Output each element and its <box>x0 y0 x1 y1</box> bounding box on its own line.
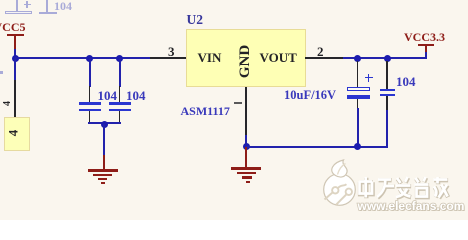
wire caps to ground <box>103 124 105 156</box>
capacitor C2 104 <box>108 86 132 123</box>
pin 3 (VIN) <box>150 57 186 59</box>
pin number 4 (rotated) <box>2 101 13 106</box>
node junction C3 bottom <box>354 143 361 150</box>
node junction C1 top <box>86 55 93 62</box>
connector pin name 4 (rotated) <box>5 130 21 137</box>
label C4 value 104 <box>396 74 416 90</box>
node A junction <box>12 55 19 62</box>
pin 2 (VOUT) <box>305 57 344 59</box>
clipped capacitor (top partial, 104) <box>0 0 90 16</box>
ground GND1 <box>85 150 121 186</box>
power flag VCC5 <box>0 20 40 52</box>
node junction GND <box>243 143 250 150</box>
capacitor C1 104 <box>78 86 102 123</box>
wire VCC5 to node A <box>14 49 16 58</box>
regulator U2 body (ASM1117) <box>186 29 306 87</box>
pin name GND (rotated) <box>237 45 254 78</box>
clipped wire stub (left edge) <box>0 71 3 74</box>
power flag VCC3.3 <box>400 30 460 60</box>
pin name VOUT <box>260 50 297 66</box>
label C1 value 104 <box>98 88 118 104</box>
watermark url text <box>358 199 465 213</box>
pin name VIN <box>198 50 222 66</box>
clipped capacitor (top-left partial, polarized) <box>0 0 80 15</box>
watermark logo (elecfans) <box>318 158 364 216</box>
capacitor C3 10uF/16V (polarized) <box>345 58 375 113</box>
wire output rail <box>343 57 427 59</box>
node junction C3 top <box>354 55 361 62</box>
watermark text CJK (elecfans) <box>357 175 452 202</box>
part value ASM1117 <box>181 104 230 119</box>
pin GND of U2 <box>245 87 247 136</box>
wire C2 drop <box>119 58 121 87</box>
node junction C4 top <box>384 55 391 62</box>
capacitor C4 104 <box>378 58 398 110</box>
label C2 value 104 <box>126 88 146 104</box>
wire C3 bottom drop <box>357 108 359 147</box>
ground GND2 <box>228 147 264 183</box>
node junction caps bottom <box>101 121 108 128</box>
wire VCC3.3 drop <box>425 52 427 59</box>
wire C1-C2 bottom join <box>88 122 121 124</box>
wire main input rail <box>15 57 150 59</box>
pin number 2 <box>317 44 324 60</box>
connector P1 body (partial) <box>4 117 30 152</box>
wire ground rail bottom <box>246 146 387 148</box>
connector P1 pin 4 <box>14 80 16 117</box>
node junction C2 top <box>116 55 123 62</box>
wire C1 drop <box>89 58 91 87</box>
designator U2 <box>187 12 204 28</box>
pin marker (dash after ASM1117) <box>234 102 242 104</box>
label C3 value 10uF/16V <box>284 88 336 103</box>
pin number 3 <box>168 44 175 60</box>
wire GND pin to node <box>245 135 247 147</box>
wire node A to connector pin <box>14 58 16 80</box>
wire C4 bottom drop <box>386 110 388 148</box>
